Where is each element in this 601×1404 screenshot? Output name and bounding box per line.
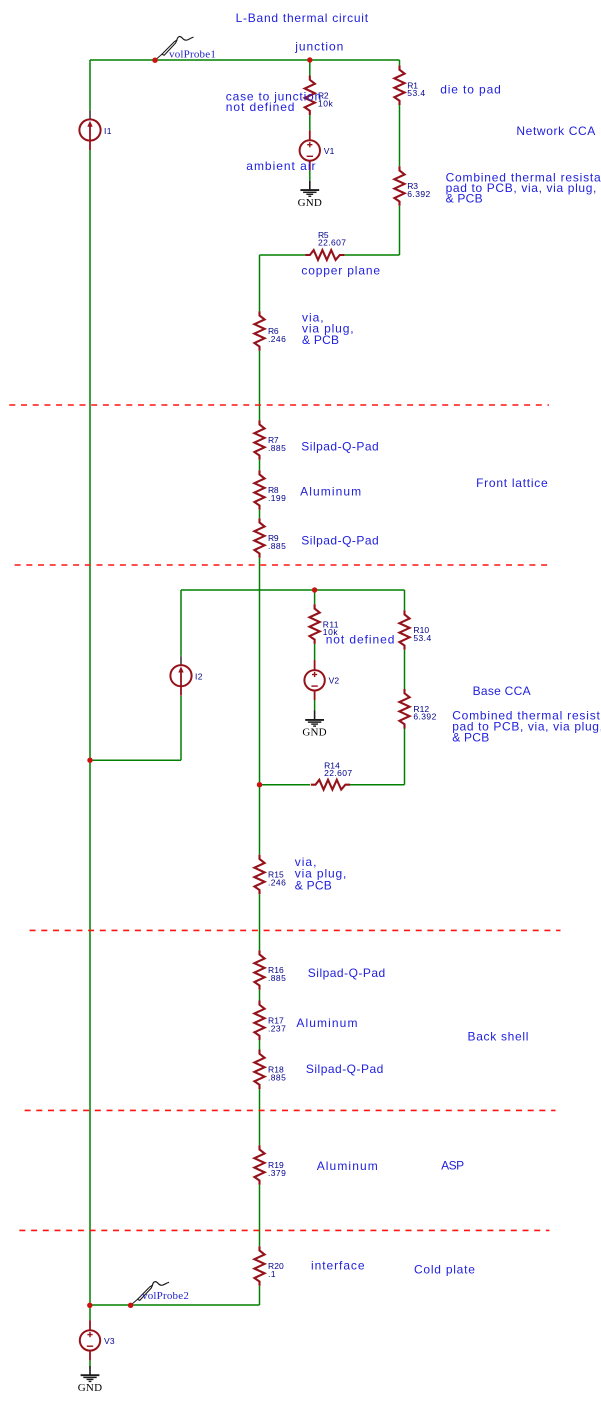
svg-text:22.607: 22.607 [318,238,346,248]
svg-text:53.4: 53.4 [413,633,431,643]
svg-text:.199: .199 [268,493,286,503]
wire [345,254,400,256]
svg-text:Cold plate: Cold plate [414,1262,476,1276]
resistor R15 [254,855,286,895]
svg-text:GND: GND [302,727,326,739]
section divider 1 [9,404,549,406]
wire [399,60,401,65]
wire [259,460,261,470]
wire [260,254,306,256]
wire [399,105,401,166]
svg-text:I1: I1 [104,126,112,136]
wire [180,696,182,760]
wire [259,990,261,1001]
node junction [307,57,312,62]
svg-text:Network CCA: Network CCA [516,124,596,138]
wire [90,1304,260,1306]
wire [259,558,261,855]
wire [314,644,316,660]
svg-text:.885: .885 [268,1072,286,1082]
voltage source V1 [300,130,335,170]
svg-text:Base CCA: Base CCA [473,684,531,698]
svg-text:not defined: not defined [326,633,396,647]
wire [404,590,406,610]
wire [314,700,316,710]
resistor R20 [254,1246,284,1286]
resistor R8 [254,470,286,510]
ground [78,1366,102,1394]
svg-text:V3: V3 [104,1336,115,1346]
svg-text:& PCB: & PCB [302,333,339,347]
svg-text:Back shell: Back shell [468,1030,530,1044]
wire [259,351,261,420]
ground [302,710,326,738]
svg-text:22.607: 22.607 [324,768,352,778]
wire [259,894,261,950]
resistor R10 [399,610,431,650]
ground [298,181,322,209]
wire [309,115,311,130]
wire [89,150,91,1305]
section divider 3 [30,929,561,931]
junction dot volProbe2 [128,1303,133,1308]
section divider 4 [25,1109,556,1111]
svg-text:interface: interface [311,1259,366,1273]
svg-text:.885: .885 [268,443,286,453]
wire [259,1286,261,1305]
svg-text:6.392: 6.392 [407,189,430,199]
svg-text:.246: .246 [268,878,286,888]
svg-text:& PCB: & PCB [452,730,489,744]
svg-text:Silpad-Q-Pad: Silpad-Q-Pad [301,533,379,547]
svg-text:volProbe2: volProbe2 [142,1290,189,1302]
resistor R5 [305,230,346,260]
svg-text:volProbe1: volProbe1 [169,49,216,61]
svg-text:I2: I2 [195,672,203,682]
wire [89,60,91,110]
svg-text:copper plane: copper plane [301,264,380,278]
svg-text:V2: V2 [329,676,340,686]
resistor R3 [394,166,430,206]
svg-text:6.392: 6.392 [413,712,436,722]
junction dot R14 wire [257,782,262,787]
resistor R18 [254,1050,286,1090]
wire [90,59,400,61]
svg-text:GND: GND [298,197,322,209]
section divider 5 [19,1229,549,1231]
resistor R14 [311,760,353,789]
voltage source V2 [304,660,339,700]
resistor R11 [310,604,339,644]
svg-text:GND: GND [78,1382,102,1394]
svg-text:.379: .379 [268,1168,286,1178]
svg-text:.246: .246 [268,334,286,344]
voltage source V3 [80,1320,115,1360]
section divider 2 [15,564,549,566]
wire [260,784,311,786]
svg-text:53.4: 53.4 [407,88,425,98]
resistor R19 [254,1145,286,1185]
svg-text:die to pad: die to pad [440,83,502,97]
probe volProbe2 [131,1282,170,1306]
resistor R16 [254,950,286,990]
svg-text:.885: .885 [268,973,286,983]
wire [404,729,406,785]
svg-text:& PCB: & PCB [295,878,332,892]
junction dot base CCA [312,587,317,592]
svg-text:Aluminum: Aluminum [296,1016,358,1030]
wire [89,1305,91,1320]
resistor R6 [254,311,286,351]
current source I1 [79,110,111,150]
svg-text:& PCB: & PCB [446,192,483,206]
svg-text:Silpad-Q-Pad: Silpad-Q-Pad [306,1062,384,1076]
wire [259,1040,261,1049]
svg-text:ASP: ASP [441,1158,464,1172]
resistor R1 [394,65,425,105]
svg-text:Aluminum: Aluminum [317,1159,379,1173]
wire [259,1185,261,1246]
junction dot I2 branch [87,758,92,763]
wire [314,590,316,604]
svg-text:Front lattice: Front lattice [476,476,548,490]
wire [399,206,401,255]
wire [90,759,181,761]
svg-text:not defined: not defined [226,100,296,114]
resistor R12 [399,689,436,729]
wire [309,60,311,76]
svg-text:V1: V1 [324,146,335,156]
resistor R2 [305,76,334,116]
svg-text:.885: .885 [268,541,286,551]
wire [259,510,261,518]
current source I2 [170,656,202,696]
resistor R9 [254,518,286,558]
wire [309,171,311,181]
wire [181,589,405,591]
svg-text:junction: junction [294,40,344,54]
wire [180,590,182,656]
wire [89,1360,91,1366]
svg-text:Aluminum: Aluminum [300,485,362,499]
svg-text:L-Band thermal circuit: L-Band thermal circuit [236,11,369,25]
svg-text:Silpad-Q-Pad: Silpad-Q-Pad [301,439,379,453]
wire [404,650,406,689]
resistor R7 [254,420,286,460]
resistor R17 [254,1001,286,1041]
probe volProbe1 [155,37,194,61]
wire [349,784,404,786]
wire [259,255,261,311]
wire [259,1089,261,1145]
junction dot volProbe1 [152,58,157,63]
junction dot bottom left [87,1303,92,1308]
svg-text:.237: .237 [268,1023,286,1033]
svg-text:ambient air: ambient air [246,159,316,173]
svg-text:Silpad-Q-Pad: Silpad-Q-Pad [308,966,386,980]
svg-text:.1: .1 [268,1269,276,1279]
